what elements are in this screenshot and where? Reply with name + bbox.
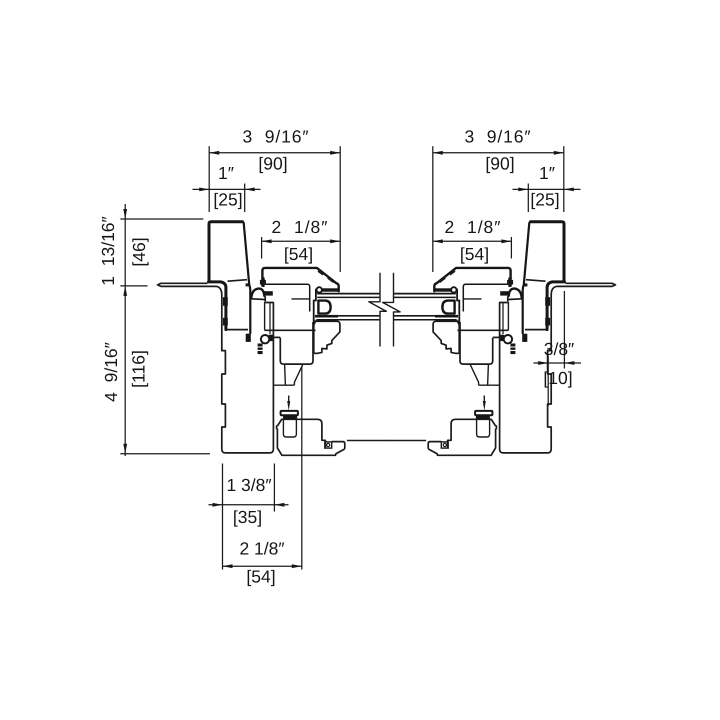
dim line 3/8	[534, 362, 582, 364]
svg-text:[116]: [116]	[129, 350, 149, 388]
svg-text:1 13/16″: 1 13/16″	[98, 216, 118, 285]
svg-text:3 9/16″: 3 9/16″	[465, 127, 532, 147]
extension line left 3 9/16 left end	[208, 146, 210, 212]
svg-text:2 1/8″: 2 1/8″	[272, 217, 329, 237]
extension line 3/8 left	[547, 356, 549, 407]
extension line right group left long	[432, 146, 434, 272]
dim line 2 1/8 bottom	[223, 565, 302, 567]
svg-text:[54]: [54]	[246, 567, 275, 587]
extension line left 1in right end	[244, 184, 246, 213]
svg-text:2 1/8″: 2 1/8″	[445, 217, 502, 237]
dim line 1in right	[513, 188, 581, 190]
svg-text:1″: 1″	[218, 163, 234, 183]
extension line bottom mid	[273, 464, 275, 512]
svg-text:[25]: [25]	[530, 190, 559, 210]
ext horizontal floor	[120, 285, 147, 287]
svg-text:[54]: [54]	[460, 244, 489, 264]
svg-text:3/8″: 3/8″	[544, 339, 575, 359]
vertical dim line left	[124, 204, 126, 456]
ext horizontal frame bottom	[120, 453, 210, 455]
svg-text:1″: 1″	[539, 163, 555, 183]
extension line bottom left	[222, 464, 224, 570]
extension line left 2 1/8 left end	[261, 237, 263, 259]
svg-text:[10]: [10]	[543, 368, 572, 388]
dim line 1in left	[193, 188, 261, 190]
left frame assembly	[158, 222, 387, 456]
ext horizontal fin top	[120, 218, 203, 220]
svg-text:[90]: [90]	[485, 154, 514, 174]
extension line 3/8 right	[563, 291, 565, 369]
svg-text:[54]: [54]	[284, 244, 313, 264]
right frame assembly (mirrored)	[386, 222, 615, 456]
break line 2	[383, 273, 401, 347]
dim line 1 3/8 bottom	[209, 504, 289, 506]
svg-text:3 9/16″: 3 9/16″	[243, 127, 310, 147]
extension line right 1in left end	[527, 184, 529, 213]
svg-text:2 1/8″: 2 1/8″	[239, 539, 284, 559]
dim line 3 9/16 left	[209, 152, 340, 154]
svg-text:4 9/16″: 4 9/16″	[101, 342, 121, 402]
extension line right group right	[563, 146, 565, 212]
svg-text:[35]: [35]	[233, 507, 262, 527]
svg-text:[25]: [25]	[213, 190, 242, 210]
dim line 2 1/8 left	[262, 240, 341, 242]
extension line bottom right long	[301, 366, 303, 570]
dim line 3 9/16 right	[433, 152, 564, 154]
svg-text:[90]: [90]	[258, 154, 287, 174]
extension line right 2 1/8 right end	[510, 237, 512, 259]
svg-text:1 3/8″: 1 3/8″	[226, 475, 271, 495]
svg-text:[46]: [46]	[129, 237, 149, 266]
dim line 2 1/8 right	[433, 240, 512, 242]
break line 1	[369, 273, 387, 347]
extension line left group right long	[339, 146, 341, 272]
